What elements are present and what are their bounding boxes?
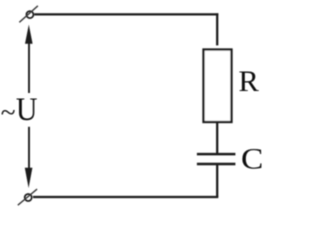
svg-text:C: C xyxy=(241,142,263,175)
arrow down (source polarity) xyxy=(25,127,33,188)
label ~ (tilde of source) xyxy=(1,98,16,128)
svg-text:R: R xyxy=(239,65,259,98)
wire top xyxy=(34,13,218,15)
svg-text:~: ~ xyxy=(1,98,16,128)
wire bottom xyxy=(33,196,218,198)
label C xyxy=(241,142,263,175)
capacitor C xyxy=(197,154,236,164)
wire below C xyxy=(216,165,218,197)
label U (source voltage) xyxy=(16,91,38,128)
wire right upper xyxy=(216,13,218,45)
label R xyxy=(239,65,259,98)
resistor R xyxy=(204,50,232,123)
terminal bottom-left xyxy=(18,189,37,205)
terminal top-left xyxy=(19,6,38,23)
svg-text:U: U xyxy=(16,91,38,128)
wire R to C xyxy=(216,122,218,153)
arrow up (source polarity) xyxy=(25,25,33,93)
